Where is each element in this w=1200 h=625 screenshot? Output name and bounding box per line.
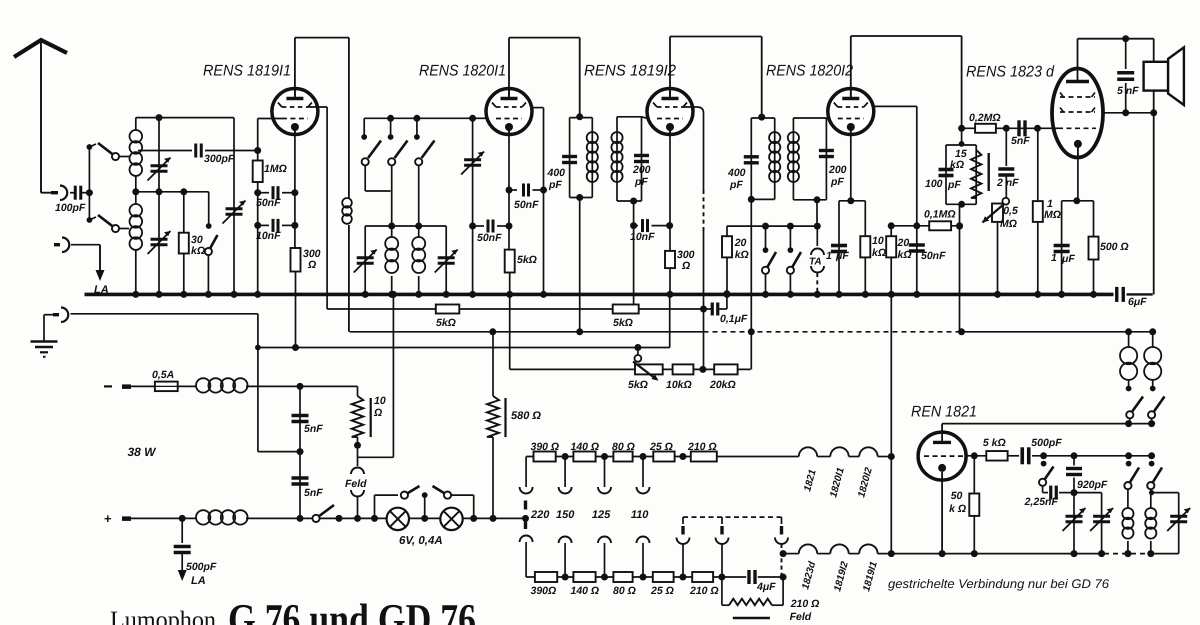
wire IF1 bottom to lineB — [579, 198, 581, 332]
svg-text:kΩ: kΩ — [872, 247, 886, 259]
bus chassis — [85, 293, 1114, 297]
svg-text:G 76 und GD 76: G 76 und GD 76 — [228, 595, 476, 625]
svg-text:RENS 1819I1: RENS 1819I1 — [203, 63, 291, 80]
wire ground plug — [44, 314, 53, 316]
node bank rail 417 — [413, 115, 420, 122]
svg-text:pF: pF — [830, 176, 844, 188]
varcap C6 tuning — [464, 158, 481, 161]
coil IF1 secondary — [611, 132, 622, 143]
wire pot row right riser — [750, 332, 752, 370]
svg-text:580 Ω: 580 Ω — [511, 410, 541, 422]
resistor 1M U5 — [1033, 201, 1043, 222]
wire U1 grid lead — [258, 118, 282, 120]
wire varcap col left — [364, 191, 366, 226]
wire 300ohm to lineC — [295, 272, 297, 348]
capacitor 100pF — [74, 186, 77, 200]
wire U2 anode drop — [579, 38, 581, 117]
resistor 580 — [492, 332, 494, 396]
wire 961 stub — [961, 128, 963, 145]
svg-text:80 Ω: 80 Ω — [613, 585, 636, 597]
svg-text:kΩ: kΩ — [191, 245, 205, 257]
svg-text:MΩ: MΩ — [1044, 209, 1061, 221]
svg-text:REN 1821: REN 1821 — [911, 404, 977, 421]
wire U1 grid vertical — [257, 119, 259, 295]
resistor 25 lower — [653, 572, 674, 582]
switch bank S3b — [390, 118, 392, 135]
varcap C4 osc left — [357, 256, 374, 259]
svg-text:390 Ω: 390 Ω — [531, 441, 560, 453]
wire U4 screen tap — [872, 105, 917, 107]
wire 892 vertical — [890, 294, 892, 553]
wire 0.1M rail — [891, 225, 959, 227]
svg-text:5nF: 5nF — [304, 423, 323, 435]
resistor 15k zigzag — [971, 150, 981, 198]
wire 2nF drop — [1005, 128, 1007, 166]
lamp bypass — [371, 515, 378, 522]
pot row wire — [510, 368, 751, 370]
svg-text:200: 200 — [632, 164, 651, 176]
svg-text:kΩ: kΩ — [735, 249, 749, 261]
svg-text:pF: pF — [548, 179, 562, 191]
wire S3c down — [418, 165, 420, 237]
wire ground to grid line — [71, 313, 258, 315]
wire 2nF to pot — [1005, 175, 1007, 198]
tube REN1821 U6 — [918, 432, 966, 480]
line C — [258, 347, 670, 349]
svg-text:TA: TA — [809, 257, 822, 268]
line B solid right — [962, 331, 1153, 333]
feld 210 loop — [721, 577, 723, 605]
resistor 1M — [253, 161, 263, 183]
svg-text:400: 400 — [547, 167, 566, 179]
resistor 10k c4 — [860, 236, 870, 257]
svg-text:25 Ω: 25 Ω — [650, 585, 674, 597]
tube RENS1820I1 U2 — [486, 89, 532, 135]
varcap C9 — [1170, 515, 1187, 518]
heater lower line right — [783, 553, 799, 555]
coil L2 antenna lower — [135, 192, 137, 204]
svg-text:500pF: 500pF — [1031, 437, 1062, 449]
svg-text:RENS 1823 d: RENS 1823 d — [966, 64, 1055, 81]
svg-text:10nF: 10nF — [630, 231, 655, 243]
svg-text:110: 110 — [631, 509, 649, 521]
resistor 80 upper — [613, 452, 632, 462]
svg-text:1: 1 — [826, 250, 832, 262]
switch S4b — [787, 223, 794, 230]
jack TA — [814, 223, 821, 230]
svg-text:RENS 1820I1: RENS 1820I1 — [419, 63, 506, 80]
heater row upper wire — [526, 456, 799, 458]
varcap C1 input upper — [151, 164, 168, 167]
svg-text:50nF: 50nF — [477, 232, 502, 244]
varcap C8 — [1093, 515, 1110, 518]
switch bank S3a — [363, 118, 365, 135]
svg-text:10: 10 — [872, 235, 884, 247]
wire 10 to Feld — [357, 437, 359, 466]
capacitor 10nF det — [634, 225, 638, 227]
wire U5 anode out — [1103, 112, 1154, 114]
svg-text:140 Ω: 140 Ω — [571, 585, 600, 597]
wire U5 anode rail — [1077, 39, 1079, 69]
resistor 10 zigzag — [357, 386, 359, 396]
svg-text:k Ω: k Ω — [949, 503, 966, 515]
capacitor 50nF c — [909, 243, 925, 247]
node IF1 feed — [576, 113, 583, 120]
svg-text:gestrichelte Verbindung nur be: gestrichelte Verbindung nur bei GD 76 — [888, 577, 1109, 591]
selector col 125 — [604, 457, 606, 488]
coil L3 osc — [385, 237, 398, 250]
ground plug — [53, 313, 59, 316]
jack Feld — [351, 468, 364, 474]
svg-text:μF: μF — [1061, 253, 1075, 265]
heater upper dots — [562, 453, 569, 460]
arrow LA — [99, 245, 101, 272]
wire choke1 to corner — [246, 385, 358, 387]
svg-text:Ω: Ω — [373, 407, 382, 419]
wire U3 cathode — [669, 131, 671, 251]
svg-text:100: 100 — [925, 178, 943, 190]
resistor 30k — [183, 192, 185, 233]
capacitor 100pF — [939, 168, 954, 172]
capacitor 400pF IF2 — [744, 155, 759, 158]
svg-text:390Ω: 390Ω — [531, 585, 557, 597]
node Feld rail — [354, 515, 361, 522]
svg-text:pF: pF — [947, 179, 961, 191]
selector col 220 — [525, 457, 527, 488]
capacitor 5nF coupling — [1017, 120, 1020, 136]
coil L7 — [1120, 347, 1137, 364]
capacitor 400pF IF1 — [562, 155, 577, 158]
heater lower dots — [562, 574, 569, 581]
switch S8 — [1126, 411, 1133, 418]
wire U1 anode drop lower — [348, 225, 350, 332]
lamp 2 — [440, 508, 462, 530]
svg-text:50nF: 50nF — [256, 197, 281, 209]
svg-text:10: 10 — [374, 395, 386, 407]
node 0.1M junction — [956, 223, 963, 230]
wire 5nF column — [299, 386, 301, 518]
wire tuning col — [472, 118, 474, 294]
resistor 5k lineA 1 — [436, 305, 460, 314]
resistor 5k cathode2 — [505, 250, 515, 273]
wire U4 anode rail — [850, 36, 852, 99]
svg-text:MΩ: MΩ — [1000, 218, 1017, 230]
resistor 20k row — [714, 364, 737, 374]
switch S2 wave change — [208, 192, 210, 226]
svg-text:0,5: 0,5 — [1003, 205, 1018, 217]
switch mains — [299, 517, 301, 519]
capacitor 0.1uF — [711, 303, 714, 316]
capacitor 920pF — [1073, 456, 1075, 466]
svg-text:pF: pF — [729, 179, 743, 191]
svg-text:1: 1 — [1051, 252, 1057, 264]
capacitor 200pF IF1 — [634, 154, 649, 157]
wire U2 grid lead — [473, 117, 487, 119]
capacitor 5nF speaker — [1125, 39, 1127, 69]
svg-text:150: 150 — [556, 509, 575, 521]
wire screen rail 128 — [962, 127, 1053, 129]
svg-text:20kΩ: 20kΩ — [709, 379, 736, 391]
svg-text:220: 220 — [530, 509, 550, 521]
wire U2 cathode line — [508, 131, 510, 250]
switch S7 osc coil2 — [1149, 461, 1155, 467]
capacitor 10nF g1 — [258, 224, 269, 226]
svg-text:5nF: 5nF — [1011, 135, 1030, 147]
selector dashed bus GD76 — [683, 516, 782, 518]
svg-text:20: 20 — [734, 237, 747, 249]
svg-text:1MΩ: 1MΩ — [264, 163, 287, 175]
svg-text:25 Ω: 25 Ω — [649, 441, 673, 453]
node grid 225 — [254, 222, 261, 229]
node 300pF junction — [254, 147, 261, 154]
svg-text:2,25nF: 2,25nF — [1024, 496, 1059, 508]
IF2 right tank box — [793, 117, 826, 119]
bottom rail dots — [1071, 550, 1078, 557]
wire U4 cathode split — [850, 131, 852, 201]
resistor 300 cathode3 — [665, 251, 675, 268]
wire U6 grid out — [966, 455, 986, 457]
resistor 210 lower — [692, 572, 713, 582]
svg-text:6μF: 6μF — [1128, 296, 1147, 308]
svg-text:200: 200 — [828, 164, 847, 176]
resistor 5k lineA 2 — [613, 305, 639, 314]
wire U1 anode drop — [348, 38, 350, 198]
choke mains 2 — [196, 510, 210, 524]
resistor 500 U5 — [1089, 237, 1099, 260]
IF1 left tank box — [570, 117, 593, 119]
svg-text:140 Ω: 140 Ω — [571, 441, 600, 453]
svg-text:Feld: Feld — [790, 611, 812, 623]
wire cathode split — [1062, 200, 1094, 202]
svg-text:RENS 1820I2: RENS 1820I2 — [766, 63, 853, 80]
wire coilpair col2 — [1152, 332, 1154, 347]
svg-text:0,1μF: 0,1μF — [720, 313, 748, 325]
tube RENS1819I1 U1 — [272, 89, 318, 135]
tube RENS1820I2 U4 — [828, 89, 874, 135]
wire fuse to choke — [178, 385, 196, 387]
svg-text:pF: pF — [634, 176, 648, 188]
wire S3b down — [391, 165, 393, 237]
switch S5 2.25nF — [1041, 461, 1047, 467]
resistor 10k row — [673, 364, 694, 374]
svg-text:5nF: 5nF — [304, 487, 323, 499]
wire U1 screen tap — [308, 106, 327, 108]
capacitor 2.25nF — [1049, 486, 1052, 500]
svg-text:400: 400 — [727, 167, 746, 179]
node mid rail at 159 — [156, 188, 163, 195]
svg-text:210 Ω: 210 Ω — [687, 441, 717, 453]
wire 300pF line — [138, 150, 192, 152]
capacitor 300pF — [194, 144, 197, 158]
svg-text:5 kΩ: 5 kΩ — [983, 437, 1006, 449]
wire TA rail — [727, 225, 817, 227]
wire U5 grid lead — [1053, 127, 1058, 129]
wire U5 cathode — [1077, 158, 1079, 201]
svg-text:4μF: 4μF — [756, 581, 776, 593]
wire 960 vertical — [959, 204, 961, 331]
svg-text:2 nF: 2 nF — [996, 177, 1019, 189]
coil L6 osc — [1145, 508, 1156, 519]
coil IF2 secondary — [788, 132, 799, 143]
pot 5k — [635, 364, 663, 374]
svg-text:500pF: 500pF — [186, 561, 217, 573]
svg-text:300pF: 300pF — [204, 153, 235, 165]
selector col 110 — [642, 457, 644, 488]
resistor 50k — [973, 456, 975, 494]
capacitor 5nF a — [292, 414, 309, 417]
node 1006 rail — [1003, 125, 1010, 132]
resistor 20k b — [890, 226, 892, 236]
svg-text:210 Ω: 210 Ω — [689, 585, 719, 597]
choke mains 1 — [196, 378, 210, 392]
resistor 20k agc — [726, 226, 728, 236]
resistor 5k grid U6 — [986, 451, 1007, 461]
wire osc rail — [1032, 455, 1152, 457]
wire osc right branch — [1152, 492, 1179, 494]
switch S1b input lower — [87, 217, 93, 223]
resistor 210 upper — [691, 452, 717, 462]
svg-text:5kΩ: 5kΩ — [517, 254, 537, 266]
coil L1 antenna upper — [135, 118, 137, 130]
capacitor 50nF a — [509, 189, 517, 191]
wire plus rail — [246, 517, 526, 519]
coil L8 — [1144, 347, 1161, 364]
wire 1M drop — [1037, 128, 1039, 201]
capacitor 200pF IF2 — [819, 149, 834, 152]
wire IF2 feed — [761, 37, 763, 119]
wire plus — [131, 517, 196, 519]
IF1 right tank box — [617, 116, 642, 118]
capacitor 6uF — [1115, 287, 1118, 302]
varcap C2 input lower — [151, 238, 168, 241]
capacitor 1uF cathode4 — [831, 244, 847, 248]
svg-text:920pF: 920pF — [1077, 479, 1108, 491]
wire U3 grid lead — [642, 117, 649, 119]
capacitor 1uF U5 — [1054, 244, 1070, 248]
tube RENS1823d U5 — [1052, 69, 1103, 158]
resistor 0.1M — [929, 221, 951, 230]
plug LA left — [54, 243, 60, 246]
resistor 390 upper — [534, 452, 556, 462]
svg-text:20: 20 — [897, 237, 910, 249]
coil L5 osc — [1122, 508, 1133, 519]
svg-text:5 nF: 5 nF — [1117, 85, 1139, 97]
svg-text:10nF: 10nF — [256, 230, 281, 242]
svg-text:Lumophon: Lumophon — [110, 607, 216, 625]
svg-text:Ω: Ω — [307, 259, 316, 271]
svg-text:500 Ω: 500 Ω — [1100, 241, 1129, 253]
node mid rail at 184 — [180, 188, 187, 195]
capacitor 5nF b — [292, 476, 309, 479]
ground symbol — [31, 340, 58, 343]
coil L4 osc — [412, 237, 425, 250]
coil IF1 primary — [587, 132, 598, 143]
node 961 rail — [958, 125, 965, 132]
choke RFC1 — [342, 198, 352, 208]
wire U2 screen tap — [530, 107, 544, 109]
IF2 left tank box — [751, 117, 774, 119]
svg-text:100pF: 100pF — [55, 202, 86, 214]
pot 0.5M — [1002, 198, 1009, 205]
wire antenna node vertical — [88, 147, 90, 220]
wire C end drop — [669, 294, 671, 347]
resistor 390 lower — [535, 572, 557, 582]
resistor 25 upper — [653, 452, 674, 462]
varcap C5 osc right — [438, 256, 455, 259]
selector col 150 — [564, 457, 566, 488]
capacitor 50nF g1 — [258, 192, 269, 194]
wire U1 anode rail — [294, 38, 296, 99]
svg-text:0,1MΩ: 0,1MΩ — [924, 209, 956, 221]
svg-text:0,2MΩ: 0,2MΩ — [969, 112, 1001, 124]
svg-text:50: 50 — [951, 490, 963, 502]
wire input box right vertical — [233, 118, 235, 295]
node antenna input — [86, 189, 93, 196]
tube RENS1819I2 U3 — [647, 89, 693, 135]
bus junction dots — [132, 291, 139, 298]
heater humps upper — [799, 447, 817, 456]
svg-text:50nF: 50nF — [514, 199, 539, 211]
svg-text:kΩ: kΩ — [950, 159, 964, 171]
wire U2 cathode to potrow — [509, 273, 511, 370]
wire IF2 sec bottom to TA rail — [816, 200, 818, 226]
svg-text:10kΩ: 10kΩ — [666, 379, 692, 391]
wire ground drop — [257, 314, 259, 452]
node grid U5 rail — [1034, 125, 1041, 132]
node tuning 226 — [469, 223, 476, 230]
svg-text:Feld: Feld — [345, 478, 367, 490]
svg-text:+: + — [104, 511, 112, 526]
wire U1 cathode — [294, 131, 296, 248]
wire U6 anode line — [942, 423, 1152, 425]
resistor 300 cathode1 — [291, 248, 301, 272]
capacitor 50nF b — [473, 225, 484, 227]
switch S4a — [762, 223, 769, 230]
antenna plug — [41, 192, 58, 194]
capacitor 500pF osc — [1020, 447, 1024, 464]
wire IF2 bottom to potrow — [750, 199, 752, 369]
wire IF1 sec bottom — [633, 201, 635, 309]
heater humps lower — [799, 544, 817, 553]
svg-text:80 Ω: 80 Ω — [612, 441, 635, 453]
svg-text:5kΩ: 5kΩ — [436, 317, 456, 329]
svg-text:125: 125 — [592, 509, 611, 521]
wire varcap col right — [445, 226, 447, 294]
wire bank rail — [364, 117, 472, 119]
capacitor 4uF — [747, 570, 750, 584]
node speaker cap top — [1122, 35, 1129, 42]
wire 300ohm3 to bus — [669, 268, 671, 294]
switch S9 — [1148, 411, 1155, 418]
line B dashed GD76 — [704, 331, 962, 333]
wire minus — [131, 385, 155, 387]
switch S6 osc coil1 — [1126, 461, 1132, 467]
varcap C7 — [1066, 515, 1083, 518]
node bank rail 390 — [387, 115, 394, 122]
svg-text:50nF: 50nF — [921, 250, 946, 262]
minus terminal — [104, 385, 112, 387]
svg-text:210 Ω: 210 Ω — [790, 598, 820, 610]
heater row lower wire — [526, 576, 746, 578]
box 15k 100pF — [946, 144, 976, 146]
svg-text:38 W: 38 W — [128, 445, 158, 459]
fuse 0.5A — [155, 382, 178, 392]
coil IF2 primary — [769, 132, 780, 143]
svg-text:6V, 0,4A: 6V, 0,4A — [399, 535, 443, 547]
switch S1a input upper — [87, 144, 93, 150]
wire speaker drop — [1153, 113, 1155, 295]
capacitor 2nF — [998, 167, 1014, 171]
